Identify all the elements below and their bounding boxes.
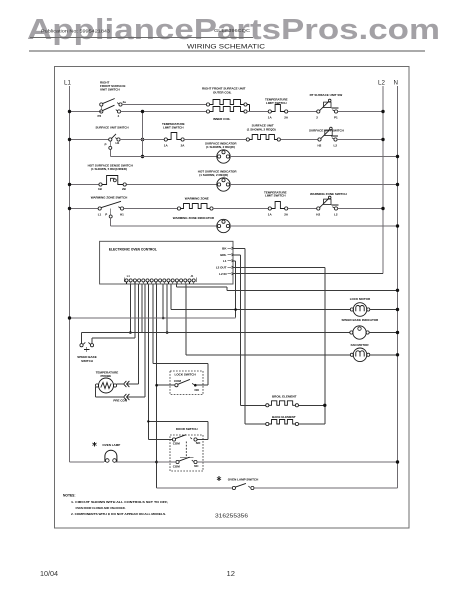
svg-text:P: P (105, 142, 107, 146)
svg-text:SURFACE UNIT SWITCH: SURFACE UNIT SWITCH (96, 125, 129, 129)
svg-text:2. COMPONENTS WITH ∗ DO NOT: 2. COMPONENTS WITH ∗ DO NOT APPEAR ON AL… (71, 512, 166, 516)
svg-text:GLEF396CQC: GLEF396CQC (214, 28, 250, 33)
svg-text:LOCK MOTOR: LOCK MOTOR (350, 297, 371, 301)
svg-text:4a: 4a (123, 100, 127, 104)
svg-text:NO: NO (196, 441, 201, 445)
svg-text:NOTES:: NOTES: (63, 493, 75, 497)
svg-text:H1: H1 (116, 141, 120, 145)
svg-text:SWITCH: SWITCH (81, 359, 93, 363)
svg-text:10/04: 10/04 (40, 569, 58, 578)
svg-text:RT SURFACE UNIT SW: RT SURFACE UNIT SW (310, 93, 343, 97)
svg-text:WARMING ZONE: WARMING ZONE (185, 196, 209, 200)
svg-text:LOCK SWITCH: LOCK SWITCH (175, 372, 196, 376)
svg-text:L2: L2 (378, 80, 385, 87)
svg-text:PRE CON: PRE CON (113, 398, 127, 402)
svg-text:UNIT SWITCH: UNIT SWITCH (100, 88, 120, 92)
svg-text:(1 SHOWN, 5 REQUIRED): (1 SHOWN, 5 REQUIRED) (91, 167, 127, 171)
svg-text:P1: P1 (334, 116, 338, 120)
svg-text:(1 SHOWN, 2 REQD): (1 SHOWN, 2 REQD) (206, 145, 235, 149)
svg-text:WARMING ZONE SWITCH: WARMING ZONE SWITCH (91, 196, 128, 200)
svg-text:PROBE: PROBE (101, 374, 112, 378)
svg-text:SPEED BAKE INDICATOR: SPEED BAKE INDICATOR (342, 318, 380, 322)
svg-text:OVEN LAMP: OVEN LAMP (102, 443, 120, 447)
svg-text:P2: P2 (98, 114, 102, 118)
svg-text:L1: L1 (223, 259, 227, 263)
svg-text:FAN MOTOR: FAN MOTOR (351, 343, 370, 347)
svg-text:H2: H2 (316, 213, 320, 217)
svg-text:INNER COIL: INNER COIL (213, 117, 231, 121)
svg-text:BROIL ELEMENT: BROIL ELEMENT (272, 394, 297, 398)
svg-text:BAKE ELEMENT: BAKE ELEMENT (272, 415, 296, 419)
svg-text:L1: L1 (98, 213, 102, 217)
svg-text:L1: L1 (64, 80, 71, 87)
svg-text:COM: COM (174, 379, 182, 383)
svg-text:COM: COM (173, 441, 181, 445)
svg-text:12: 12 (227, 569, 235, 578)
svg-text:Publication No: 5995421843: Publication No: 5995421843 (41, 29, 111, 34)
svg-text:WARMING ZONE INDICATOR: WARMING ZONE INDICATOR (173, 216, 215, 220)
svg-text:316255356: 316255356 (215, 514, 248, 520)
svg-text:(1 SHOWN, 2 REQD): (1 SHOWN, 2 REQD) (199, 173, 228, 177)
svg-text:(1 SHOWN, 2 REQD): (1 SHOWN, 2 REQD) (247, 127, 276, 131)
svg-text:L2: L2 (334, 213, 338, 217)
svg-text:ELECTRONIC OVEN CONTROL: ELECTRONIC OVEN CONTROL (109, 247, 157, 251)
svg-text:L2 OUT: L2 OUT (216, 266, 227, 270)
svg-text:NO: NO (195, 388, 200, 392)
svg-text:OVEN DOOR CLOSED AND UNLOCKED.: OVEN DOOR CLOSED AND UNLOCKED. (76, 506, 126, 510)
svg-text:BRL: BRL (220, 253, 226, 257)
svg-text:LIMIT SWITCH: LIMIT SWITCH (163, 126, 184, 130)
svg-text:L2 IN: L2 IN (219, 272, 226, 276)
svg-text:LIMIT SWITCH: LIMIT SWITCH (265, 194, 286, 198)
svg-text:L2: L2 (334, 144, 338, 148)
svg-text:COM: COM (173, 464, 181, 468)
svg-text:H2: H2 (318, 144, 322, 148)
svg-text:1. CIRCUIT SHOWN WITH ALL CON: 1. CIRCUIT SHOWN WITH ALL CONTROLS SET T… (71, 500, 168, 504)
svg-text:OVEN LAMP SWITCH: OVEN LAMP SWITCH (228, 477, 258, 481)
svg-text:WARMING ZONE SWITCH: WARMING ZONE SWITCH (310, 192, 347, 196)
svg-text:OUTER COIL: OUTER COIL (213, 91, 232, 95)
svg-text:H1: H1 (120, 213, 124, 217)
svg-text:P: P (105, 212, 107, 216)
svg-text:DOOR SWITCH: DOOR SWITCH (176, 427, 198, 431)
svg-text:N: N (394, 80, 398, 87)
svg-text:WIRING SCHEMATIC: WIRING SCHEMATIC (187, 44, 265, 51)
